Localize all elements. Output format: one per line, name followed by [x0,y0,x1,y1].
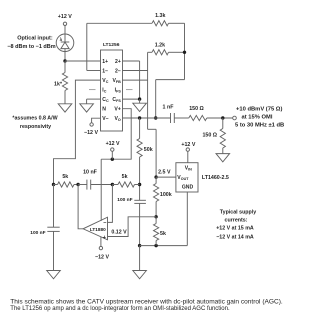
node +12V photodiode supply label [58,14,72,20]
ground CC [80,104,94,112]
node op-amp minus junction [111,183,114,186]
svg-text:−12 V at 14 mA: −12 V at 14 mA [216,234,254,240]
svg-text:5k: 5k [62,174,68,180]
wire node to 10nF [78,184,87,186]
ground CFS [133,103,147,111]
wire node to ground [139,99,141,103]
terminal +12V middle [111,148,114,151]
svg-text:1+: 1+ [102,59,108,65]
wire node to pin 1+ [65,60,101,62]
node ground row left [138,244,141,247]
ground below 1k [58,104,72,112]
wire 2- row [123,70,148,72]
svg-text:+: + [103,235,106,241]
capacitor C 1nF [171,113,175,123]
svg-text:−8 dBm to −1 dBm: −8 dBm to −1 dBm [7,44,55,50]
svg-text:responsivity: responsivity [20,124,51,130]
svg-text:+12 V: +12 V [58,14,72,20]
svg-text:2.5 V: 2.5 V [158,170,171,176]
resistor 150 ohm series [189,115,207,120]
node integrator input junction [138,183,141,186]
no-connect stub pin IFS [126,89,133,91]
ground bottom left [47,271,61,279]
node CFS/2+ ground junction [138,97,141,100]
terminal -12V op-amp [99,246,102,249]
svg-text:CC: CC [102,97,109,103]
svg-text:100 nF: 100 nF [30,230,45,236]
svg-text:1.3k: 1.3k [155,13,165,19]
node 1.2k/feedback vertical [183,51,186,54]
svg-text:V+: V+ [114,107,120,113]
svg-text:1 nF: 1 nF [163,104,175,110]
svg-text:0.12 V: 0.12 V [111,230,127,236]
svg-text:2−: 2− [115,68,121,74]
svg-text:currents:: currents: [225,217,248,223]
svg-text:The LT1256 op amp and a dc loo: The LT1256 op amp and a dc loop-integrat… [10,306,230,312]
svg-text:VC: VC [102,78,108,84]
label output level [235,107,284,129]
resistor 5k vertical [154,217,159,246]
svg-text:100k: 100k [160,192,172,198]
wire 1- to feedback bus [87,70,101,72]
svg-text:5k: 5k [160,231,166,237]
svg-text:LT1460-2.5: LT1460-2.5 [202,175,229,181]
voltage regulator U3 LT1460 body [176,163,198,192]
wire 2+ to vertical A [123,60,140,62]
svg-text:2+: 2+ [115,59,121,65]
svg-text:IC: IC [102,88,106,94]
svg-text:Typical supply: Typical supply [220,209,256,215]
node photodiode/1k junction [63,59,66,62]
svg-text:V−: V− [102,116,108,122]
wire feedback down to output row [155,80,157,118]
node output/shunt junction [221,116,224,119]
svg-text:+12 V at 15 mA: +12 V at 15 mA [216,226,254,232]
node +12V terminal junction [111,158,114,161]
wire op-amp negative supply [100,237,102,247]
resistor R 1.2k [152,50,169,55]
node 2.5V [154,175,157,178]
terminal +12V photodiode [63,22,66,25]
svg-text:LT1256: LT1256 [103,42,120,48]
wire ground row [140,245,188,247]
wire VIN stub [187,151,189,162]
wire 150 to output terminal [207,117,233,119]
resistor 5k right [118,182,135,187]
wire op-amp plus input [108,217,157,237]
node feedback/output junction [154,116,157,119]
svg-text:VIN: VIN [185,166,192,172]
wire down to ground [139,246,141,271]
wire VFB row [123,79,148,81]
label typical supply currents [216,209,256,240]
svg-text:50k: 50k [144,147,153,153]
wire integrator row: VC cap node to 5k [52,183,55,186]
terminal -12V of LT1256 [90,123,93,126]
terminal output port [233,116,237,120]
resistor R 1.3k [152,21,169,26]
photodiode D1 [56,34,74,52]
svg-text:This schematic shows the CATV: This schematic shows the CATV upstream r… [10,299,283,306]
svg-text:GND: GND [182,184,194,190]
wire V- to supply terminal [92,118,101,123]
wire VC loop: left, down, left, down [54,80,101,184]
svg-text:5k: 5k [122,174,128,180]
label optical input [7,36,55,51]
wire feedback jog left [156,79,185,81]
svg-text:1−: 1− [102,68,108,74]
svg-text:LT1880: LT1880 [90,227,106,232]
wire feedback vertical [184,23,186,79]
svg-text:−12 V: −12 V [95,254,109,260]
node VO/50k junction [138,116,141,119]
svg-text:10 nF: 10 nF [83,170,98,176]
svg-text:+12 V: +12 V [106,141,120,147]
svg-text:CFS: CFS [112,97,121,103]
label assumes responsivity [12,116,57,131]
wire 5k leads [112,184,118,186]
wire 1.2k right lead [169,51,185,53]
svg-text:150 Ω: 150 Ω [189,106,204,112]
resistor 100k [154,177,159,217]
wire cap to 150 series [174,117,189,119]
resistor 5k left [58,182,75,187]
resistor 1k [62,61,67,104]
wire op-amp minus input [108,185,113,223]
wire +12V down to op-amp supply [100,159,102,221]
op-amp U2 LT1880 body [83,217,107,240]
svg-text:VOUT: VOUT [177,175,189,181]
wire 10nF to node [91,184,113,186]
node op-amp output junction [76,183,79,186]
wire LT1460 GND down [186,192,188,246]
no-connect stub pin IC [89,89,96,91]
svg-text:IFS: IFS [115,88,122,94]
wire op-amp output [78,185,83,229]
ground output shunt [216,154,230,162]
wire vertical B [147,52,149,129]
wire vertical A 2+ to CFS row [139,61,141,99]
svg-text:1k*: 1k* [54,81,63,87]
terminal +12V LT1460 [186,148,189,151]
node op-amp + bias junction [154,215,157,218]
svg-text:VFB: VFB [112,78,121,84]
svg-text:*assumes 0.8 A/W: *assumes 0.8 A/W [12,116,57,122]
resistor 50k [137,118,142,200]
capacitor C 100nF left [47,185,59,271]
svg-text:5 to 30 MHz ±1 dB: 5 to 30 MHz ±1 dB [235,123,284,129]
wire B jog right [148,128,157,130]
wire 2.5V to LT1460 VOUT [156,176,176,178]
svg-text:+12 V: +12 V [181,142,195,148]
ground bottom middle [133,271,147,279]
svg-text:Optical input:: Optical input: [17,36,53,42]
wire top feedback row [87,22,152,24]
op-amp U1 LT1256 body [101,50,123,131]
wire VO output row [123,117,171,119]
wire B down to 2.5V node [155,129,157,177]
wire vertical 1- riser [86,23,88,70]
wire 1.2k left lead [148,51,152,53]
capacitor C 100nF right [134,200,146,245]
wire photodiode to node [64,52,66,61]
node 5k bottom junction [154,244,157,247]
wire 5k to op-out node [74,184,78,186]
svg-text:+10 dBmV (75 Ω): +10 dBmV (75 Ω) [236,107,282,113]
wire V+ to +12V row [101,109,131,160]
resistor 150 ohm shunt [220,118,225,154]
svg-text:100 nF: 100 nF [117,197,132,203]
wire 1.3k to corner [169,22,185,24]
svg-text:150 Ω: 150 Ω [202,133,217,139]
svg-text:−12 V: −12 V [84,130,98,136]
svg-text:N: N [102,107,106,113]
svg-text:1.2k: 1.2k [155,42,165,48]
svg-text:VO: VO [115,116,121,122]
svg-text:−: − [103,221,106,227]
wire CFS pin row [123,98,140,100]
wire terminal stub [111,151,113,159]
wire +12V to photodiode [64,26,66,35]
svg-text:at 15% OMI: at 15% OMI [242,115,273,121]
wire CC to ground [87,98,101,100]
svg-text:λ: λ [60,37,63,42]
capacitor C 10nF [87,180,91,190]
caption text [10,299,283,312]
